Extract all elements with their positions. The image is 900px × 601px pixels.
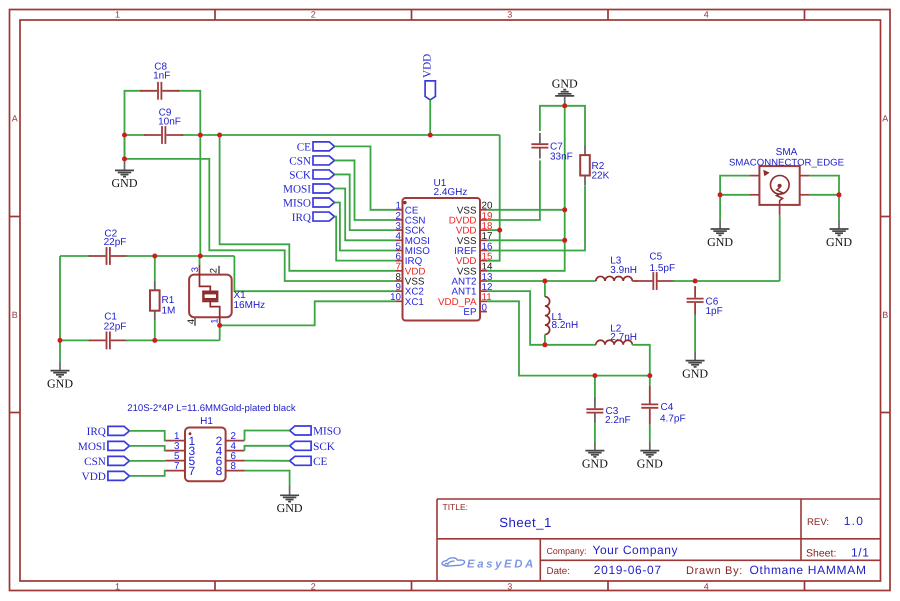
- wire C6 to ground: [694, 315, 696, 352]
- svg-text:Sheet_1: Sheet_1: [499, 515, 552, 530]
- wire XC1 bottom rail left segment: [60, 339, 91, 341]
- H1 right pin stubs: [226, 441, 245, 471]
- svg-text:8.2nH: 8.2nH: [552, 320, 579, 331]
- wire SMA right ground: [810, 176, 839, 195]
- svg-text:1/1: 1/1: [851, 546, 869, 560]
- wire H1 pin2 to MISO: [245, 431, 290, 441]
- connector SMA body: [759, 166, 799, 205]
- X1 pin2 stub unconnected: [218, 266, 220, 275]
- wire XC1 bottom rail: [126, 339, 220, 341]
- wire GND to R2 branch: [565, 106, 585, 146]
- ground symbol SMA right: [838, 220, 840, 229]
- svg-text:8: 8: [216, 464, 223, 478]
- SMA bottom pin stub: [779, 205, 781, 215]
- svg-text:2.7nH: 2.7nH: [610, 332, 637, 343]
- wire XC2 top rail: [126, 255, 235, 257]
- wire GND to U1 pin8 VSS: [125, 159, 396, 281]
- U1 EP pin 0 stub: [480, 311, 487, 313]
- svg-text:4: 4: [704, 9, 709, 19]
- capacitor C9: [144, 134, 161, 136]
- svg-text:GND: GND: [682, 366, 708, 380]
- svg-text:210S-2*4P L=11.6MMGold-plated: 210S-2*4P L=11.6MMGold-plated black: [127, 403, 296, 414]
- svg-text:R1: R1: [162, 295, 175, 306]
- wire XC2 top rail left segment: [60, 255, 91, 257]
- U1 right pin stubs: [480, 210, 487, 302]
- wire ANT1 from U1 pin12: [487, 291, 545, 345]
- junction SMA left ground: [718, 192, 723, 197]
- frame column numbers: [115, 9, 709, 591]
- wire C4 drop: [649, 376, 651, 386]
- svg-text:Your Company: Your Company: [593, 543, 679, 557]
- svg-text:IRQ: IRQ: [292, 212, 311, 224]
- wire H1 pin8 to ground: [245, 471, 290, 486]
- svg-text:4: 4: [186, 319, 197, 324]
- svg-text:A: A: [882, 114, 888, 124]
- H1 left pin stubs: [165, 441, 185, 471]
- wire GND stub below C9 node: [124, 135, 126, 159]
- junction ANT2 L1 top: [542, 279, 547, 284]
- ground symbol below C6: [694, 351, 696, 360]
- svg-text:CSN: CSN: [289, 156, 311, 168]
- wire IRQ to H1 pin1: [129, 431, 165, 441]
- wire SCK net: [335, 174, 396, 230]
- svg-text:1.5pF: 1.5pF: [650, 263, 676, 274]
- svg-text:GND: GND: [637, 456, 663, 470]
- junction X1 pin1 node: [217, 323, 222, 328]
- op-amp U1 2.4GHz transceiver body: [403, 198, 481, 321]
- svg-text:1M: 1M: [162, 306, 176, 317]
- capacitor C3: [594, 397, 596, 408]
- svg-text:CSN: CSN: [84, 456, 106, 468]
- ground symbol crystal left: [59, 340, 61, 361]
- junction ANT1 L1 bottom: [542, 342, 547, 347]
- net flag MOSI at H1: [108, 441, 129, 450]
- wire CSN to H1 pin5: [129, 460, 165, 462]
- H1 pin1 marker dot: [189, 432, 192, 435]
- svg-text:GND: GND: [707, 235, 733, 249]
- net flag SCK at H1 right: [290, 441, 312, 450]
- wire CE net: [335, 146, 396, 209]
- junction VDD rail at x219: [217, 133, 222, 138]
- wire VDD side C8 loop: [177, 91, 200, 135]
- ground symbol below C4: [649, 441, 651, 450]
- junction XC2 rail vertical: [198, 254, 203, 259]
- svg-text:SCK: SCK: [289, 170, 311, 182]
- svg-text:1: 1: [115, 581, 120, 591]
- net flag IRQ at H1: [108, 426, 129, 435]
- wire DVDD C7 to U1 pin19: [487, 160, 540, 220]
- capacitor C5: [636, 280, 653, 282]
- svg-text:Drawn By:: Drawn By:: [686, 565, 743, 577]
- wire GND left vertical crystal: [59, 256, 61, 340]
- wire GND rail segment to C9: [125, 134, 147, 136]
- net flag CE: [313, 142, 335, 151]
- capacitor C7: [539, 133, 541, 143]
- wire GND side C8 loop: [125, 91, 143, 159]
- svg-text:7: 7: [174, 461, 179, 472]
- svg-text:22K: 22K: [592, 171, 610, 182]
- junction antenna node: [693, 279, 698, 284]
- svg-text:MOSI: MOSI: [78, 441, 106, 453]
- wire VDD to H1 pin7: [129, 471, 165, 476]
- svg-text:GND: GND: [552, 76, 578, 90]
- wire GND to C7 branch: [540, 106, 565, 131]
- svg-text:1.0: 1.0: [844, 514, 864, 528]
- capacitor C4: [649, 386, 651, 404]
- title block grid: [437, 499, 881, 581]
- svg-text:3: 3: [507, 9, 512, 19]
- svg-text:3: 3: [190, 267, 201, 272]
- svg-text:MISO: MISO: [283, 198, 311, 210]
- svg-text:GND: GND: [582, 456, 608, 470]
- junction VSS pin17: [562, 238, 567, 243]
- ground symbol below C3: [594, 441, 596, 450]
- SMA inner circle: [771, 176, 790, 195]
- SMA inner squiggle: [777, 188, 783, 204]
- svg-text:VDD: VDD: [422, 54, 434, 78]
- svg-text:CE: CE: [313, 456, 327, 468]
- svg-text:16MHz: 16MHz: [234, 300, 266, 311]
- svg-text:B: B: [882, 310, 888, 320]
- svg-text:GND: GND: [47, 376, 73, 390]
- wire XC2 to U1 pin9: [234, 256, 395, 291]
- svg-text:EP: EP: [463, 307, 477, 318]
- wire U1 pin20 VSS: [487, 209, 565, 211]
- svg-text:2019-06-07: 2019-06-07: [594, 563, 662, 577]
- wire C3 drop: [594, 376, 596, 397]
- wire XC1 to U1 pin10: [220, 301, 396, 325]
- wire MOSI net: [335, 188, 396, 240]
- wire H1 pin6 to CE: [245, 460, 290, 462]
- capacitor C6: [694, 286, 696, 298]
- net flag CE at H1 right: [290, 456, 312, 465]
- ground symbol middle top inverted: [552, 76, 578, 105]
- wire L2 to VDD_PA node: [632, 345, 650, 376]
- resistor R2: [584, 146, 586, 156]
- net flag CSN at H1: [108, 456, 129, 465]
- power flag VDD top: [425, 81, 435, 100]
- junction VDD_PA C3: [592, 373, 597, 378]
- svg-text:IRQ: IRQ: [87, 426, 106, 438]
- svg-text:GND: GND: [277, 501, 303, 515]
- svg-text:2.4GHz: 2.4GHz: [434, 187, 468, 198]
- svg-text:4: 4: [704, 581, 709, 591]
- inductor L3: [596, 276, 632, 281]
- svg-text:GND: GND: [826, 235, 852, 249]
- junction C8-C9 VDD node: [198, 133, 203, 138]
- wire IRQ net: [335, 217, 396, 261]
- U1 left pin stubs: [396, 210, 403, 302]
- svg-text:MISO: MISO: [313, 426, 341, 438]
- junction XC2 rail R1: [152, 254, 157, 259]
- connector H1 body: [185, 428, 226, 482]
- junction VDD pin18: [497, 228, 502, 233]
- svg-text:XC1: XC1: [405, 297, 424, 308]
- net flag MISO at H1 right: [290, 426, 312, 435]
- svg-text:33nF: 33nF: [550, 152, 573, 163]
- svg-text:0: 0: [482, 302, 488, 313]
- svg-text:1: 1: [115, 9, 120, 19]
- wire MOSI to H1 pin3: [129, 446, 165, 451]
- net flag MISO: [313, 198, 335, 207]
- wire VDD_PA from U1 pin11: [487, 301, 650, 375]
- junction GND node below C9: [122, 156, 127, 161]
- wire XC1 from X1 pin1: [219, 325, 221, 340]
- resistor R1: [154, 256, 156, 281]
- svg-text:A: A: [12, 114, 18, 124]
- net flag IRQ: [313, 212, 335, 221]
- svg-text:3: 3: [507, 581, 512, 591]
- junction XC1 rail R1: [152, 338, 157, 343]
- wire VSS vertical to U1 pins 20 17 14: [487, 106, 565, 271]
- svg-text:CE: CE: [297, 142, 311, 154]
- svg-text:MOSI: MOSI: [283, 184, 311, 196]
- wire VDD drop to U1 pins 18 and 15: [487, 135, 500, 261]
- wire X1 pin3 to rail: [199, 256, 201, 265]
- crystal X1 body: [189, 275, 232, 318]
- junction GND left crystal: [58, 338, 63, 343]
- svg-text:8: 8: [231, 461, 237, 472]
- svg-text:22pF: 22pF: [104, 237, 127, 248]
- SMA right pin stubs: [800, 175, 810, 177]
- svg-text:REV:: REV:: [807, 517, 829, 528]
- svg-text:Company:: Company:: [547, 546, 587, 556]
- junction VDD flag on rail: [428, 133, 433, 138]
- svg-text:22pF: 22pF: [104, 322, 127, 333]
- net flag MOSI: [313, 184, 335, 193]
- svg-text:2.2nF: 2.2nF: [605, 415, 631, 426]
- X1 pin4 stub unconnected: [194, 317, 196, 326]
- svg-text:10nF: 10nF: [158, 116, 181, 127]
- net flag CSN: [313, 156, 335, 165]
- svg-text:B: B: [12, 310, 18, 320]
- svg-text:C5: C5: [649, 252, 662, 263]
- SMA inner arrow: [763, 170, 769, 176]
- ground symbol top left: [124, 159, 126, 170]
- junction VSS pin20: [562, 207, 567, 212]
- wire C5 to antenna node: [673, 280, 780, 282]
- ground symbol SMA left: [719, 220, 721, 229]
- wire CSN net: [335, 160, 396, 220]
- svg-text:Date:: Date:: [547, 566, 570, 577]
- wire C4 to ground: [649, 425, 651, 442]
- wire VDD rail: [181, 134, 500, 136]
- svg-text:GND: GND: [112, 176, 138, 190]
- svg-text:2: 2: [311, 581, 316, 591]
- inductor L2: [596, 340, 632, 345]
- svg-text:SCK: SCK: [313, 441, 335, 453]
- svg-text:H1: H1: [200, 416, 213, 427]
- junction C8-C9 GND node: [122, 133, 127, 138]
- wire IREF R2 to U1 pin16: [487, 185, 585, 250]
- SMA left pin stubs: [749, 175, 759, 177]
- wire U1 pin17 VSS: [487, 239, 565, 241]
- svg-text:4.7pF: 4.7pF: [660, 414, 686, 425]
- wire H1 pin4 to SCK: [245, 446, 290, 451]
- svg-text:SMACONNECTOR_EDGE: SMACONNECTOR_EDGE: [729, 157, 844, 168]
- wire VDD flag stub: [429, 100, 431, 135]
- U1 pin1 marker dot: [403, 201, 406, 204]
- capacitor C1: [89, 339, 106, 341]
- capacitor C8: [140, 90, 157, 92]
- frame row letters: [12, 114, 889, 320]
- svg-text:TITLE:: TITLE:: [443, 502, 469, 512]
- svg-text:2: 2: [311, 9, 316, 19]
- crystal X1 inner symbol: [200, 265, 220, 325]
- junction SMA right ground: [837, 192, 842, 197]
- wire MISO net: [335, 203, 396, 251]
- svg-text:1: 1: [209, 319, 220, 324]
- svg-text:3.9nH: 3.9nH: [610, 265, 637, 276]
- net flag SCK: [313, 170, 335, 179]
- wire SMA left ground: [720, 176, 749, 195]
- wire XC2 vertical from VDD rail: [199, 135, 201, 256]
- svg-text:Sheet:: Sheet:: [806, 548, 836, 560]
- junction GND mid node: [562, 103, 567, 108]
- wire VDD branch to U1 pin7: [220, 135, 396, 271]
- wire ANT1 to L2: [545, 344, 596, 346]
- svg-text:Othmane HAMMAM: Othmane HAMMAM: [750, 563, 867, 577]
- wire L3 to C5 red lead: [632, 280, 637, 282]
- wire U1 pin18 VDD: [487, 229, 500, 231]
- svg-text:EasyEDA: EasyEDA: [467, 558, 536, 570]
- svg-text:2: 2: [209, 268, 220, 273]
- svg-text:7: 7: [189, 464, 196, 478]
- svg-text:1nF: 1nF: [153, 70, 170, 81]
- SMA center pin dot: [778, 184, 782, 188]
- net flag VDD at H1: [108, 471, 129, 480]
- EasyEDA logo: [442, 558, 536, 571]
- inductor L1: [544, 281, 546, 297]
- wire ANT2 from U1 pin13: [487, 280, 596, 282]
- wire antenna node to SMA: [779, 215, 781, 281]
- svg-text:C4: C4: [661, 402, 674, 413]
- ground symbol H1: [289, 486, 291, 496]
- svg-text:VDD: VDD: [82, 471, 106, 483]
- junction VDD_PA C4: [647, 373, 652, 378]
- svg-text:1pF: 1pF: [706, 306, 723, 317]
- wire C3 to ground: [594, 423, 596, 441]
- capacitor C2: [89, 255, 106, 257]
